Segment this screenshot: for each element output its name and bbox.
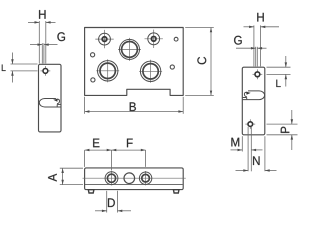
dimension L right line (285, 56, 287, 67)
dimension C label (197, 57, 206, 64)
dimension P line (291, 110, 293, 124)
dimension H left extension lines (38, 21, 40, 64)
dimension E label (93, 139, 99, 148)
dimension B line (85, 111, 184, 113)
dimension G right line (236, 47, 256, 49)
counterbore hole top-right (145, 38, 163, 40)
right view slot tab (243, 97, 247, 99)
dimension D extension lines (106, 191, 108, 213)
dimension F extension line (145, 150, 147, 167)
dimension A line (62, 168, 64, 184)
dimension L right label (276, 80, 280, 87)
left view locating pin (44, 66, 46, 76)
dimension G right label (234, 36, 242, 45)
bottom view hole 2 (124, 173, 135, 184)
dimension L left line (11, 53, 13, 65)
left side view outline (39, 64, 62, 132)
dimension G left label (57, 32, 65, 41)
counterbore hole top-left (95, 38, 113, 40)
left view slot flow arrow (56, 99, 59, 104)
dimension M extension lines (241, 136, 243, 151)
dimension C extension lines (185, 27, 214, 29)
bottom view right foot (173, 190, 179, 193)
front view plate outline (85, 28, 184, 96)
dimension B extension lines (84, 97, 86, 114)
port hole B bottom-right (139, 70, 162, 72)
dimension H right extension lines (253, 25, 255, 66)
dimension N line (236, 170, 249, 172)
dimension E line (85, 149, 112, 151)
dimension L right extension lines (267, 66, 291, 68)
bottom view step line (85, 183, 183, 185)
port hole P top-middle (118, 48, 141, 50)
bottom view outline (85, 168, 184, 190)
dimension A extension lines (60, 167, 83, 169)
dimension N extension line (264, 136, 266, 171)
dimension C line (210, 28, 212, 96)
right view slot flow arrow (244, 92, 247, 97)
dimension P extension lines (267, 123, 298, 125)
dimension H left label (39, 10, 45, 19)
dimension H right label (257, 13, 263, 22)
bottom view left foot (88, 190, 94, 193)
bottom view centerline (83, 177, 186, 179)
dimension G right extension lines (255, 47, 257, 67)
right side view outline (242, 67, 264, 135)
left view port slot (39, 99, 61, 108)
dimension L left label (2, 65, 6, 71)
bottom view hole 1 (111, 171, 113, 185)
right view port slot (243, 91, 265, 100)
dimension M label (231, 138, 239, 147)
dimension G left extension lines (41, 43, 43, 63)
bottom view hole 3 (145, 171, 147, 185)
dimension G left line (30, 44, 42, 46)
dimension H right line (244, 26, 254, 28)
port hole A bottom-left (96, 70, 119, 72)
dimension E extension lines (84, 150, 86, 167)
dimension L left extension lines (11, 63, 38, 65)
dimension M line (231, 149, 243, 151)
dimension B label (130, 102, 136, 111)
dimension D label (108, 198, 115, 207)
small mounting hole left-middle (91, 53, 95, 57)
dimension N label (253, 156, 259, 165)
dimension F label (127, 139, 133, 148)
dimension D line (95, 210, 107, 212)
dimension H left line (28, 21, 39, 23)
small mounting hole bottom-left (91, 78, 95, 82)
small mounting hole right-middle (170, 65, 174, 69)
dimension A label (48, 174, 57, 182)
right view locating pin bottom (249, 119, 251, 129)
right view locating pin top (256, 69, 258, 79)
dimension F line (112, 149, 146, 151)
small mounting hole top-right corner (174, 37, 178, 41)
left view slot tab (57, 103, 61, 105)
dimension P label (281, 127, 290, 133)
